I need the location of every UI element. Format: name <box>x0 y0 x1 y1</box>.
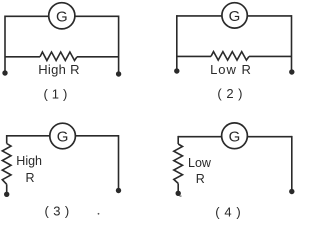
wire: middle horizontal left lead, circuit 1 <box>5 56 40 58</box>
svg-text:( 4 ): ( 4 ) <box>215 205 241 220</box>
resistor R (High R), circuit 3, vertical <box>2 144 11 185</box>
terminal dot, bottom-left, circuit 2 <box>174 68 179 73</box>
wire: middle horizontal right lead, circuit 1 <box>77 56 119 58</box>
wire: right vertical, circuit 4 <box>291 136 293 190</box>
wire: top horizontal left segment, circuit 2 <box>177 15 222 17</box>
galvanometer G (circuit 2) <box>222 3 247 28</box>
galvanometer G (circuit 3) <box>50 123 76 149</box>
svg-text:Low R: Low R <box>210 62 252 77</box>
svg-text:( 1 ): ( 1 ) <box>43 87 67 102</box>
wire: right vertical, circuit 3 <box>118 135 120 189</box>
svg-text:( 2 ): ( 2 ) <box>217 86 243 101</box>
scan speck above caption (4) <box>180 196 182 197</box>
wire: top horizontal left segment, circuit 3 <box>7 135 50 137</box>
resistor R (Low R), circuit 4, vertical <box>174 144 183 183</box>
svg-text:G: G <box>56 8 68 25</box>
svg-text:G: G <box>229 8 241 25</box>
terminal dot, bottom-right, circuit 3 <box>116 188 121 193</box>
wire: top horizontal right segment, circuit 4 <box>248 136 292 138</box>
svg-text:G: G <box>57 129 69 146</box>
wire: middle horizontal left lead, circuit 2 <box>177 55 211 57</box>
terminal dot, bottom-right, circuit 1 <box>116 71 121 76</box>
resistor R (Low R), circuit 2 <box>211 52 249 61</box>
wire: left vertical lead above resistor, circuit 4 <box>177 136 179 144</box>
galvanometer G (circuit 4) <box>222 123 248 149</box>
wire: top horizontal left segment, circuit 4 <box>178 136 221 138</box>
terminal dot, bottom-right, circuit 2 <box>289 69 294 74</box>
wire: left vertical lead below resistor, circuit 3 <box>6 184 8 192</box>
svg-text:R: R <box>196 172 205 186</box>
resistor R (High R), circuit 1 <box>40 52 77 61</box>
wire: left vertical lead below resistor, circuit 4 <box>177 183 179 191</box>
galvanometer G (circuit 1) <box>49 3 75 29</box>
svg-text:Low: Low <box>188 156 212 170</box>
wire: left vertical, circuit 1 <box>4 16 6 72</box>
svg-text:High R: High R <box>38 62 80 77</box>
terminal dot, bottom-left, circuit 4 <box>176 191 181 196</box>
wire: left vertical, circuit 2 <box>176 15 178 69</box>
svg-text:High: High <box>16 154 42 168</box>
svg-text:R: R <box>26 171 35 185</box>
wire: right vertical, circuit 1 <box>118 16 120 73</box>
wire: left vertical lead above resistor, circuit 3 <box>6 135 8 144</box>
wire: top horizontal right segment, circuit 2 <box>248 15 292 17</box>
scan speck near caption (3) <box>98 213 100 215</box>
wire: right vertical, circuit 2 <box>291 15 293 70</box>
wire: top horizontal left segment, circuit 1 <box>5 15 48 17</box>
terminal dot, bottom-left, circuit 1 <box>2 70 7 75</box>
svg-text:G: G <box>229 128 241 145</box>
terminal dot, bottom-left, circuit 3 <box>4 192 9 197</box>
wire: top horizontal right segment, circuit 1 <box>75 15 118 17</box>
wire: middle horizontal right lead, circuit 2 <box>249 55 292 57</box>
svg-text:( 3 ): ( 3 ) <box>45 203 70 218</box>
terminal dot, bottom-right, circuit 4 <box>289 189 294 194</box>
wire: top horizontal right segment, circuit 3 <box>76 135 119 137</box>
